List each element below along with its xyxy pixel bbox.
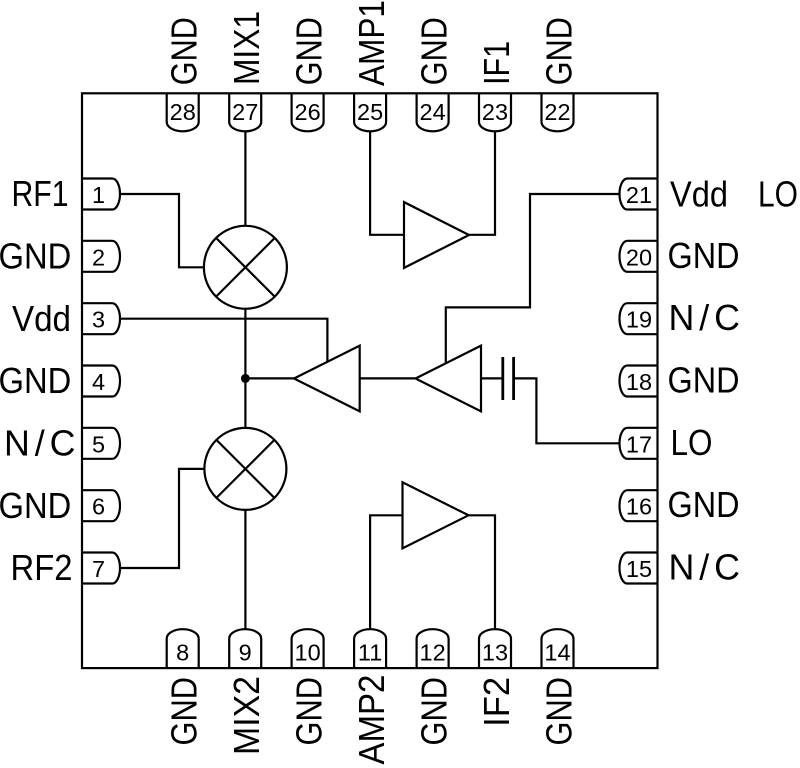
- svg-text:GND: GND: [0, 237, 71, 277]
- svg-text:12: 12: [420, 640, 446, 666]
- svg-text:GND: GND: [164, 677, 205, 746]
- svg-text:18: 18: [626, 369, 652, 395]
- mixer MIX2 (circle with X): [204, 428, 286, 510]
- svg-text:MIX1: MIX1: [226, 11, 267, 85]
- svg-text:GND: GND: [538, 677, 579, 746]
- junction node (LO splitter): [242, 375, 249, 382]
- svg-text:7: 7: [92, 556, 105, 582]
- pin 12 pad (bottom): [417, 629, 449, 668]
- mixer MIX1 (circle with X): [204, 226, 287, 309]
- pin 22 pad (top): [542, 93, 574, 131]
- svg-text:1: 1: [92, 182, 105, 208]
- svg-text:AMP2: AMP2: [351, 675, 392, 765]
- pin 23 pad (top): [479, 93, 511, 131]
- wire pin1 (RF1) to MIX1: [120, 194, 204, 267]
- pin 1 pad (left): [82, 179, 120, 210]
- svg-text:6: 6: [92, 494, 105, 520]
- svg-text:GND: GND: [0, 361, 71, 401]
- pin 11 pad (bottom): [354, 629, 386, 668]
- wire MIX2 to pin9: [244, 510, 246, 630]
- svg-text:2: 2: [92, 244, 105, 270]
- pin 27 pad (top): [229, 93, 261, 131]
- pin 5 pad (left): [82, 428, 120, 459]
- pin 16 pad (right): [620, 490, 658, 521]
- svg-text:14: 14: [544, 640, 570, 666]
- pin 3 pad (left): [82, 303, 120, 334]
- pin 14 pad (bottom): [542, 629, 574, 668]
- pin 20 pad (right): [620, 241, 658, 272]
- capacitor C1: [503, 357, 514, 400]
- pin 2 pad (left): [82, 241, 120, 272]
- svg-text:24: 24: [420, 99, 446, 125]
- amplifier AMP2 (triangle): [403, 482, 469, 548]
- wire pin27 to MIX1: [244, 131, 246, 226]
- LO buffer amp U2 (left-pointing triangle): [294, 346, 360, 412]
- amplifier AMP1 (triangle): [404, 202, 469, 268]
- svg-text:LO: LO: [758, 175, 798, 215]
- svg-text:4: 4: [92, 369, 105, 395]
- svg-text:20: 20: [626, 244, 652, 270]
- svg-text:15: 15: [626, 556, 652, 582]
- svg-text:25: 25: [357, 99, 383, 125]
- svg-text:N/C: N/C: [4, 424, 76, 464]
- svg-text:AMP1: AMP1: [351, 0, 392, 86]
- svg-text:26: 26: [295, 99, 321, 125]
- pin 25 pad (top): [354, 93, 386, 131]
- pin 7 pad (left): [82, 553, 120, 584]
- svg-text:27: 27: [232, 99, 258, 125]
- svg-text:MIX2: MIX2: [226, 676, 267, 755]
- svg-text:LO: LO: [671, 423, 713, 463]
- svg-text:GND: GND: [413, 17, 454, 85]
- pin 28 pad (top): [167, 93, 199, 131]
- svg-text:8: 8: [176, 640, 189, 666]
- IC package outline U1: [82, 93, 658, 668]
- wire pin21 (Vdd LO) to buffer U3: [446, 194, 620, 363]
- svg-text:5: 5: [92, 431, 105, 457]
- svg-text:GND: GND: [288, 677, 329, 746]
- svg-text:N/C: N/C: [669, 548, 741, 588]
- pin 26 pad (top): [292, 93, 324, 131]
- pin 18 pad (right): [620, 366, 658, 397]
- wire AMP2 output to pin13 (IF2): [469, 515, 496, 630]
- wire LO node to buffer U2 tip: [245, 377, 294, 379]
- wire buffer U3 tip to buffer U2 base: [360, 377, 416, 379]
- pin 6 pad (left): [82, 490, 120, 521]
- svg-text:13: 13: [482, 640, 508, 666]
- svg-text:22: 22: [544, 99, 570, 125]
- svg-text:GND: GND: [668, 236, 740, 276]
- pin 8 pad (bottom): [167, 629, 199, 668]
- svg-text:GND: GND: [538, 17, 579, 85]
- svg-text:IF1: IF1: [476, 41, 517, 85]
- pin 17 pad (right): [620, 428, 658, 459]
- svg-text:GND: GND: [668, 485, 740, 525]
- wire pin3 (Vdd) to buffer U2: [120, 319, 327, 363]
- pin 13 pad (bottom): [479, 629, 511, 668]
- pin 9 pad (bottom): [229, 629, 261, 668]
- svg-text:Vdd: Vdd: [670, 175, 728, 215]
- svg-text:10: 10: [295, 640, 321, 666]
- svg-text:3: 3: [92, 307, 105, 333]
- pin 21 pad (right): [620, 179, 658, 210]
- svg-text:GND: GND: [288, 17, 329, 85]
- wire AMP1 output to pin23 (IF1): [469, 131, 495, 235]
- wire pin11 to AMP2 input: [370, 515, 402, 630]
- wire capacitor C1 to pin17 (LO): [515, 378, 620, 443]
- wire pin7 (RF2) to MIX2: [120, 469, 204, 568]
- svg-text:GND: GND: [668, 361, 740, 401]
- svg-text:RF1: RF1: [12, 174, 69, 214]
- svg-text:Vdd: Vdd: [12, 299, 71, 339]
- svg-text:GND: GND: [164, 17, 205, 85]
- wire pin25 to AMP1 input: [370, 131, 404, 235]
- svg-text:28: 28: [170, 99, 196, 125]
- svg-text:GND: GND: [0, 486, 71, 526]
- svg-text:GND: GND: [413, 677, 454, 746]
- pin 10 pad (bottom): [292, 629, 324, 668]
- svg-text:N/C: N/C: [669, 298, 741, 338]
- pin 15 pad (right): [620, 553, 658, 584]
- svg-text:IF2: IF2: [476, 677, 517, 727]
- svg-text:RF2: RF2: [11, 548, 73, 588]
- LO buffer amp U3 (left-pointing triangle): [416, 346, 482, 412]
- svg-text:23: 23: [482, 99, 508, 125]
- wire buffer U3 base to capacitor C1: [481, 377, 501, 379]
- pin 19 pad (right): [620, 303, 658, 334]
- svg-text:17: 17: [626, 431, 652, 457]
- pin 4 pad (left): [82, 366, 120, 397]
- svg-text:21: 21: [626, 182, 652, 208]
- svg-text:19: 19: [626, 307, 652, 333]
- pin 24 pad (top): [417, 93, 449, 131]
- svg-text:9: 9: [239, 640, 252, 666]
- wire MIX1 to MIX2 through LO node: [244, 309, 246, 428]
- svg-text:16: 16: [626, 494, 652, 520]
- svg-text:11: 11: [358, 640, 382, 666]
